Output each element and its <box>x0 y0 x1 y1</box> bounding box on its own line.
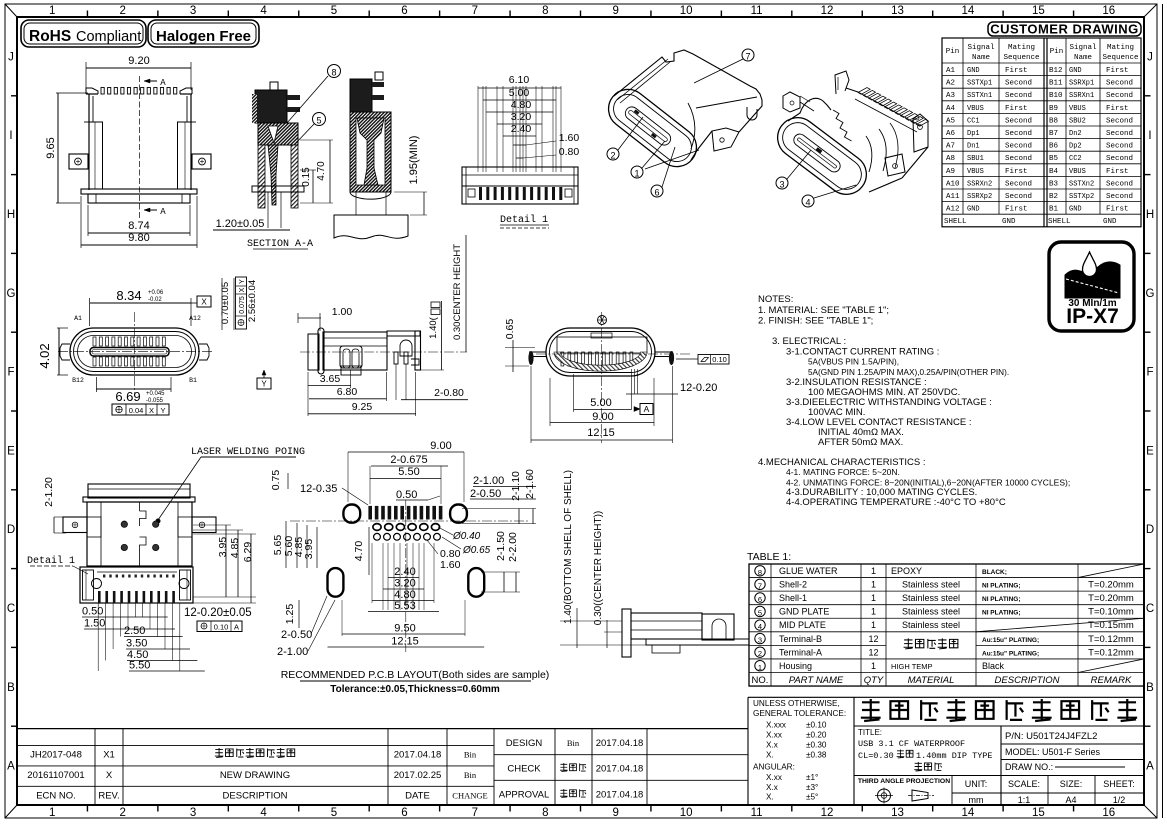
svg-text:X.xxx: X.xxx <box>766 721 786 730</box>
svg-text:1: 1 <box>871 607 876 617</box>
svg-text:REV.: REV. <box>98 791 119 802</box>
svg-text:6.80: 6.80 <box>337 386 358 398</box>
svg-text:B: B <box>1146 682 1154 694</box>
svg-text:6.29: 6.29 <box>242 542 254 563</box>
svg-text:CC2: CC2 <box>1069 155 1082 163</box>
svg-text:A3: A3 <box>946 92 956 100</box>
svg-text:Mating: Mating <box>1107 44 1134 52</box>
svg-text:5.50: 5.50 <box>398 466 419 478</box>
svg-text:First: First <box>1106 67 1129 75</box>
svg-text:2.50: 2.50 <box>124 625 145 637</box>
svg-text:VBUS: VBUS <box>967 168 984 176</box>
svg-text:2-1.00: 2-1.00 <box>277 646 308 658</box>
svg-text:GLUE WATER: GLUE WATER <box>779 566 838 576</box>
svg-text:Dp2: Dp2 <box>1069 143 1082 151</box>
svg-text:0.80: 0.80 <box>559 146 580 158</box>
svg-text:0.075: 0.075 <box>239 296 246 314</box>
svg-text:SSRXn2: SSRXn2 <box>967 180 992 188</box>
svg-text:6: 6 <box>654 188 659 198</box>
svg-text:SSTXn1: SSTXn1 <box>967 92 992 100</box>
svg-text:Second: Second <box>1005 130 1032 138</box>
svg-text:Second: Second <box>1005 143 1032 151</box>
svg-text:A6: A6 <box>946 130 956 138</box>
svg-text:7: 7 <box>472 807 478 819</box>
svg-text:Detail 1: Detail 1 <box>27 555 75 567</box>
svg-text:A7: A7 <box>946 143 955 151</box>
svg-text:12.15: 12.15 <box>587 427 615 439</box>
svg-text:VBUS: VBUS <box>1069 168 1086 176</box>
svg-text:SHEET:: SHEET: <box>1103 779 1135 789</box>
svg-text:T=0.10mm: T=0.10mm <box>1088 607 1134 618</box>
svg-text:1: 1 <box>871 566 876 576</box>
svg-text:3: 3 <box>190 807 196 819</box>
svg-text:T=0.12mm: T=0.12mm <box>1088 647 1134 658</box>
svg-text:2-0.675: 2-0.675 <box>390 454 427 466</box>
svg-text:Terminal-B: Terminal-B <box>779 634 822 644</box>
svg-text:Second: Second <box>1005 180 1032 188</box>
svg-text:X.x: X.x <box>766 741 778 750</box>
svg-text:SSTXp1: SSTXp1 <box>967 80 992 88</box>
svg-text:4: 4 <box>260 807 267 819</box>
svg-text:13: 13 <box>891 5 904 17</box>
svg-text:Second: Second <box>1106 143 1133 151</box>
svg-text:First: First <box>1106 168 1129 176</box>
svg-text:Y: Y <box>160 406 165 415</box>
svg-text:RoHS: RoHS <box>29 28 71 45</box>
svg-text:12: 12 <box>821 807 834 819</box>
svg-text:B1: B1 <box>1049 206 1059 214</box>
svg-text:A12: A12 <box>946 206 960 214</box>
svg-text:12: 12 <box>821 5 834 17</box>
svg-text:+0.06: +0.06 <box>148 290 164 296</box>
svg-text:3.20: 3.20 <box>394 578 415 590</box>
svg-text:Second: Second <box>1106 180 1133 188</box>
svg-text:0.30CENTER HEIGHT: 0.30CENTER HEIGHT <box>452 244 463 340</box>
svg-text:UNIT:: UNIT: <box>965 779 988 789</box>
svg-text:Second: Second <box>1005 80 1032 88</box>
svg-text:GND: GND <box>967 67 980 75</box>
svg-text:Name: Name <box>1074 54 1092 62</box>
svg-text:B6: B6 <box>1049 143 1059 151</box>
svg-text:DESCRIPTION: DESCRIPTION <box>995 675 1060 686</box>
svg-text:2017.04.18: 2017.04.18 <box>596 790 644 801</box>
svg-text:DRAW NO.:: DRAW NO.: <box>1005 762 1053 772</box>
svg-text:Second: Second <box>1106 155 1133 163</box>
svg-text:A9: A9 <box>946 168 955 176</box>
svg-text:Dn1: Dn1 <box>967 143 980 151</box>
svg-text:12-0.20±0.05: 12-0.20±0.05 <box>184 607 252 619</box>
svg-text:G: G <box>7 288 16 300</box>
svg-text:2.40: 2.40 <box>511 123 532 135</box>
svg-text:5: 5 <box>758 609 762 618</box>
svg-text:Stainless steel: Stainless steel <box>902 593 960 603</box>
svg-text:GND: GND <box>1002 218 1016 226</box>
svg-text:1.40(BOTTOM SHELL OF SHELL): 1.40(BOTTOM SHELL OF SHELL) <box>563 470 574 624</box>
svg-text:7: 7 <box>745 52 750 62</box>
svg-text:T=0.20mm: T=0.20mm <box>1088 593 1134 604</box>
svg-text:3.65: 3.65 <box>320 373 341 385</box>
svg-text:Y: Y <box>261 380 267 389</box>
svg-text:8.34: 8.34 <box>116 288 141 303</box>
svg-text:SCALE:: SCALE: <box>1008 779 1040 789</box>
svg-text:6: 6 <box>758 595 762 604</box>
svg-text:Bin: Bin <box>464 770 477 780</box>
svg-text:CL=0.30: CL=0.30 <box>858 751 894 761</box>
svg-text:Au:15u" PLATING;: Au:15u" PLATING; <box>982 637 1039 644</box>
svg-text:4: 4 <box>260 5 267 17</box>
svg-text:4.70: 4.70 <box>353 541 365 562</box>
svg-text:1.40mm DIP TYPE: 1.40mm DIP TYPE <box>916 751 993 761</box>
svg-text:1: 1 <box>871 593 876 603</box>
svg-text:B3: B3 <box>1049 180 1059 188</box>
svg-text:2.40: 2.40 <box>394 566 415 578</box>
svg-text:2. FINISH: SEE "TABLE 1";: 2. FINISH: SEE "TABLE 1"; <box>758 316 873 327</box>
svg-text:mm: mm <box>969 795 984 805</box>
svg-text:5: 5 <box>331 5 337 17</box>
svg-text:VBUS: VBUS <box>1069 105 1086 113</box>
svg-text:10: 10 <box>680 807 693 819</box>
svg-text:A: A <box>160 207 166 217</box>
svg-text:1: 1 <box>49 5 55 17</box>
svg-text:11: 11 <box>751 807 763 819</box>
svg-text:First: First <box>1106 206 1129 214</box>
svg-text:Signal: Signal <box>967 44 995 52</box>
svg-text:12: 12 <box>868 634 878 644</box>
svg-text:0.04: 0.04 <box>129 406 144 415</box>
svg-text:B7: B7 <box>1049 130 1058 138</box>
svg-text:BLACK;: BLACK; <box>982 569 1007 576</box>
svg-text:QTY: QTY <box>864 675 884 686</box>
svg-text:2-0.80: 2-0.80 <box>434 387 464 399</box>
svg-text:Black: Black <box>982 661 1005 671</box>
svg-text:A1: A1 <box>946 67 956 75</box>
svg-text:9.25: 9.25 <box>352 401 373 413</box>
svg-text:14: 14 <box>962 5 975 17</box>
svg-text:I: I <box>1148 130 1151 142</box>
svg-text:8.74: 8.74 <box>128 220 149 232</box>
svg-text:Sequence: Sequence <box>1102 54 1138 62</box>
svg-text:5.53: 5.53 <box>394 600 415 612</box>
svg-text:A10: A10 <box>946 180 960 188</box>
svg-text:E: E <box>7 445 15 457</box>
svg-text:12-0.35: 12-0.35 <box>300 483 337 495</box>
svg-text:X.x: X.x <box>766 783 778 792</box>
svg-text:SBU2: SBU2 <box>1069 117 1086 125</box>
svg-text:GND PLATE: GND PLATE <box>779 607 829 617</box>
svg-text:1: 1 <box>871 661 876 671</box>
svg-text:Ø0.40: Ø0.40 <box>452 531 481 542</box>
svg-text:B9: B9 <box>1049 105 1058 113</box>
svg-text:MATERIAL: MATERIAL <box>908 675 955 686</box>
svg-text:EPOXY: EPOXY <box>891 566 922 576</box>
svg-text:A2: A2 <box>946 80 955 88</box>
svg-text:A1: A1 <box>74 315 82 322</box>
svg-text:X.: X. <box>766 793 774 802</box>
svg-text:GND: GND <box>967 206 980 214</box>
svg-text:Bin: Bin <box>567 738 580 748</box>
svg-text:SSRXp1: SSRXp1 <box>1069 80 1094 88</box>
svg-text:A4: A4 <box>946 105 956 113</box>
svg-text:3.50: 3.50 <box>126 638 147 650</box>
svg-text:Halogen Free: Halogen Free <box>156 28 251 45</box>
svg-text:1: 1 <box>634 169 639 179</box>
svg-text:8: 8 <box>331 68 336 78</box>
svg-text:USB 3.1 CF WATERPROOF: USB 3.1 CF WATERPROOF <box>858 739 965 749</box>
svg-text:2: 2 <box>119 807 125 819</box>
svg-text:VBUS: VBUS <box>967 105 984 113</box>
svg-text:B1: B1 <box>189 377 197 384</box>
svg-text:Dp1: Dp1 <box>967 130 980 138</box>
svg-text:First: First <box>1005 105 1028 113</box>
svg-text:2017.02.25: 2017.02.25 <box>394 770 442 781</box>
svg-text:0.75: 0.75 <box>270 470 282 491</box>
svg-text:2-0.50: 2-0.50 <box>281 629 312 641</box>
svg-text:NOTES:: NOTES: <box>758 294 793 305</box>
svg-text:SSRXp2: SSRXp2 <box>967 193 992 201</box>
svg-text:1: 1 <box>49 807 55 819</box>
svg-text:E: E <box>1146 445 1154 457</box>
svg-text:SSTXn2: SSTXn2 <box>1069 180 1094 188</box>
svg-text:±3°: ±3° <box>806 783 818 792</box>
svg-text:Second: Second <box>1106 80 1133 88</box>
svg-text:X.xx: X.xx <box>766 731 782 740</box>
svg-text:6.10: 6.10 <box>509 74 530 86</box>
svg-text:D: D <box>1146 524 1154 536</box>
svg-text:GENERAL TOLERANCE:: GENERAL TOLERANCE: <box>753 709 846 718</box>
svg-text:5: 5 <box>316 116 321 126</box>
svg-text:1. MATERIAL: SEE "TABLE 1": 1. MATERIAL: SEE "TABLE 1"; <box>758 305 889 316</box>
svg-text:First: First <box>1005 67 1028 75</box>
svg-text:3-1.CONTACT CURRENT RATING: 3-1.CONTACT CURRENT RATING : <box>786 347 939 358</box>
svg-text:6.69: 6.69 <box>115 389 140 404</box>
svg-text:2: 2 <box>610 151 615 161</box>
svg-text:First: First <box>1005 206 1028 214</box>
svg-text:REMARK: REMARK <box>1091 675 1132 686</box>
svg-text:A11: A11 <box>946 193 960 201</box>
svg-text:2-1.00: 2-1.00 <box>473 475 504 487</box>
svg-text:B8: B8 <box>1049 117 1058 125</box>
svg-text:Second: Second <box>1005 92 1032 100</box>
svg-text:SECTION A-A: SECTION A-A <box>247 239 313 250</box>
svg-text:X.xx: X.xx <box>766 773 782 782</box>
svg-text:HIGH TEMP: HIGH TEMP <box>891 662 933 671</box>
svg-text:+0.045: +0.045 <box>146 391 165 397</box>
svg-text:G: G <box>1146 288 1155 300</box>
svg-text:8: 8 <box>542 807 548 819</box>
svg-text:2-1.60: 2-1.60 <box>524 469 536 499</box>
svg-text:2: 2 <box>119 5 125 17</box>
svg-text:SBU1: SBU1 <box>967 155 984 163</box>
svg-text:9.00: 9.00 <box>592 411 613 423</box>
svg-text:15: 15 <box>1032 5 1045 17</box>
svg-text:Tolerance:±0.05,Thickness=0.60: Tolerance:±0.05,Thickness=0.60mm <box>330 684 500 695</box>
svg-text:3: 3 <box>758 636 762 645</box>
svg-text:GND: GND <box>1103 218 1117 226</box>
svg-text:Stainless steel: Stainless steel <box>902 620 960 630</box>
svg-text:Stainless steel: Stainless steel <box>902 607 960 617</box>
svg-text:0.50: 0.50 <box>82 606 103 618</box>
svg-text:3. ELECTRICAL :: 3. ELECTRICAL : <box>772 336 846 347</box>
svg-text:±1°: ±1° <box>806 773 818 782</box>
svg-text:A: A <box>7 761 15 773</box>
svg-text:APPROVAL: APPROVAL <box>499 790 550 801</box>
svg-text:5.00: 5.00 <box>590 397 611 409</box>
svg-text:1/2: 1/2 <box>1113 795 1126 805</box>
svg-text:First: First <box>1106 105 1129 113</box>
svg-text:7: 7 <box>472 5 478 17</box>
svg-text:ANGULAR:: ANGULAR: <box>753 763 795 772</box>
svg-text:2017.04.18: 2017.04.18 <box>596 764 644 775</box>
svg-text:4.85: 4.85 <box>229 538 241 559</box>
svg-text:CC1: CC1 <box>967 117 980 125</box>
svg-text:Name: Name <box>972 54 990 62</box>
svg-text:X: X <box>106 770 113 781</box>
svg-text:I: I <box>9 130 12 142</box>
svg-text:13: 13 <box>891 807 904 819</box>
svg-text:12.15: 12.15 <box>391 636 419 648</box>
svg-text:Pin: Pin <box>1050 48 1064 56</box>
svg-text:A5: A5 <box>946 117 956 125</box>
svg-text:3: 3 <box>190 5 196 17</box>
svg-text:9: 9 <box>613 5 619 17</box>
svg-text:9.20: 9.20 <box>128 55 149 67</box>
svg-text:12: 12 <box>868 647 878 657</box>
svg-text:Compliant: Compliant <box>76 29 141 45</box>
svg-text:9.80: 9.80 <box>128 232 149 244</box>
svg-text:NI PLATING;: NI PLATING; <box>982 610 1021 617</box>
svg-text:T=0.20mm: T=0.20mm <box>1088 580 1134 591</box>
svg-text:Shell-1: Shell-1 <box>779 593 807 603</box>
svg-text:2-1.10: 2-1.10 <box>510 471 522 501</box>
svg-text:D: D <box>7 524 15 536</box>
svg-text:X: X <box>149 406 154 415</box>
svg-text:5A(GND PIN 1.25A/PIN MAX),0: 5A(GND PIN 1.25A/PIN MAX),0.25A/PIN(OTHE… <box>808 368 1009 377</box>
svg-text:4-2. UNMATING FORCE: 8~20N(IN: 4-2. UNMATING FORCE: 8~20N(INITIAL),6~20… <box>786 478 1070 488</box>
svg-text:16: 16 <box>1102 5 1115 17</box>
svg-text:H: H <box>7 209 15 221</box>
svg-text:RECOMMENDED P.C.B LAYOUT(Bot: RECOMMENDED P.C.B LAYOUT(Both sides are … <box>281 669 550 681</box>
svg-text:1: 1 <box>871 580 876 590</box>
svg-text:8: 8 <box>542 5 548 17</box>
svg-text:J: J <box>1147 51 1153 63</box>
svg-text:2: 2 <box>758 649 762 658</box>
svg-text:Sequence: Sequence <box>1003 54 1039 62</box>
svg-text:Second: Second <box>1106 193 1133 201</box>
svg-text:MID PLATE: MID PLATE <box>779 620 826 630</box>
svg-text:Y: Y <box>239 279 246 284</box>
svg-text:4-1. MATING FORCE: 5~20N.: 4-1. MATING FORCE: 5~20N. <box>786 467 900 477</box>
svg-text:Terminal-A: Terminal-A <box>779 647 822 657</box>
svg-text:NO.: NO. <box>752 675 769 686</box>
svg-text:P/N: U501T24J4FZL2: P/N: U501T24J4FZL2 <box>1005 731 1097 742</box>
svg-text:NI PLATING;: NI PLATING; <box>982 596 1021 603</box>
svg-text:B2: B2 <box>1049 193 1058 201</box>
svg-text:9: 9 <box>613 807 619 819</box>
svg-text:1.60: 1.60 <box>440 559 461 571</box>
svg-text:DATE: DATE <box>405 791 430 802</box>
svg-text:LASER WELDING POING: LASER WELDING POING <box>191 447 305 458</box>
svg-text:A4: A4 <box>1065 795 1076 805</box>
svg-text:8: 8 <box>758 568 762 577</box>
svg-text:±5°: ±5° <box>806 793 818 802</box>
svg-text:Bin: Bin <box>464 750 477 760</box>
svg-text:0.50: 0.50 <box>396 489 417 501</box>
svg-text:1: 1 <box>758 663 762 672</box>
svg-text:Second: Second <box>1106 117 1133 125</box>
svg-text:Ø0.65: Ø0.65 <box>462 545 491 556</box>
svg-text:1.00: 1.00 <box>332 306 353 318</box>
svg-text:SHELL: SHELL <box>944 218 967 226</box>
svg-text:5A(VBUS PIN 1.5A/PIN),: 5A(VBUS PIN 1.5A/PIN), <box>808 358 899 367</box>
svg-text:F: F <box>7 367 14 379</box>
svg-text:-0.055: -0.055 <box>146 398 164 404</box>
svg-text:6: 6 <box>401 5 407 17</box>
svg-text:0.10: 0.10 <box>214 623 229 632</box>
svg-text:UNLESS OTHERWISE,: UNLESS OTHERWISE, <box>753 699 840 708</box>
svg-text:0.10: 0.10 <box>712 355 727 364</box>
svg-text:1:1: 1:1 <box>1018 795 1031 805</box>
svg-text:Pin: Pin <box>946 48 960 56</box>
svg-text:B4: B4 <box>1049 168 1059 176</box>
svg-text:Detail 1: Detail 1 <box>500 214 548 226</box>
svg-text:T=0.12mm: T=0.12mm <box>1088 634 1134 645</box>
svg-text:Housing: Housing <box>779 661 812 671</box>
svg-text:B10: B10 <box>1049 92 1063 100</box>
svg-text:TABLE 1:: TABLE 1: <box>747 551 791 563</box>
svg-text:B5: B5 <box>1049 155 1059 163</box>
svg-text:4.02: 4.02 <box>37 343 52 368</box>
svg-text:0.65: 0.65 <box>504 319 516 340</box>
svg-text:1: 1 <box>871 620 876 630</box>
svg-text:A: A <box>1146 761 1154 773</box>
svg-text:Second: Second <box>1005 193 1032 201</box>
svg-text:2-2.00: 2-2.00 <box>507 532 519 562</box>
svg-text:SIZE:: SIZE: <box>1060 779 1083 789</box>
svg-text:PART NAME: PART NAME <box>789 675 844 686</box>
svg-text:2017.04.18: 2017.04.18 <box>596 738 644 749</box>
svg-text:A: A <box>234 623 239 632</box>
svg-text:SHELL: SHELL <box>1048 218 1071 226</box>
svg-text:H: H <box>1146 209 1154 221</box>
svg-text:5.50: 5.50 <box>129 660 150 672</box>
svg-text:Second: Second <box>1005 155 1032 163</box>
svg-text:3: 3 <box>779 180 784 190</box>
svg-text:B12: B12 <box>72 377 84 384</box>
svg-text:THIRD ANGLE PROJECTION: THIRD ANGLE PROJECTION <box>858 778 950 785</box>
svg-text:4: 4 <box>758 622 762 631</box>
svg-text:2-0.50: 2-0.50 <box>470 488 501 500</box>
svg-text:20161107001: 20161107001 <box>27 770 84 781</box>
svg-text:Second: Second <box>1106 92 1133 100</box>
svg-text:9.00: 9.00 <box>430 440 451 452</box>
svg-text:2-1.50: 2-1.50 <box>495 531 507 561</box>
svg-text:Stainless steel: Stainless steel <box>902 580 960 590</box>
svg-text:9.65: 9.65 <box>45 137 57 158</box>
svg-text:5.00: 5.00 <box>509 87 530 99</box>
svg-text:B: B <box>7 682 15 694</box>
svg-text:Second: Second <box>1005 117 1032 125</box>
svg-text:0.30((CENTER HEIGHT)): 0.30((CENTER HEIGHT)) <box>593 511 604 625</box>
svg-text:NEW DRAWING: NEW DRAWING <box>220 770 290 781</box>
svg-text:CUSTOMER DRAWING: CUSTOMER DRAWING <box>990 22 1139 37</box>
svg-text:SSTXp2: SSTXp2 <box>1069 193 1094 201</box>
svg-text:1.60: 1.60 <box>559 132 580 144</box>
svg-text:IP-X7: IP-X7 <box>1066 305 1119 328</box>
svg-text:C: C <box>1146 603 1154 615</box>
svg-text:A: A <box>160 78 166 88</box>
svg-text:B12: B12 <box>1049 67 1063 75</box>
svg-text:NI PLATING;: NI PLATING; <box>982 583 1021 590</box>
